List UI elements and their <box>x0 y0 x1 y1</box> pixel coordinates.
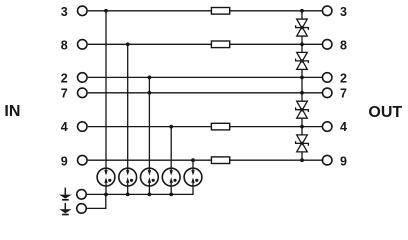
wire tube F4 bottom to ground bus <box>170 186 172 194</box>
junction bus/F2 <box>126 193 130 197</box>
svg-text:8: 8 <box>61 38 68 52</box>
junction bus/F4 <box>169 193 173 197</box>
svg-text:IN: IN <box>4 103 20 120</box>
wire line3 right (R1 to OUT 3) <box>230 10 323 12</box>
terminal circle OUT 4 <box>322 122 332 132</box>
terminal circle IN 7 <box>78 88 88 98</box>
wire line4 right (R3 to OUT 4) <box>230 126 323 128</box>
wire vertical line8 to gas tube F2 <box>127 44 129 168</box>
wire line8 left (IN 8 to resistor R2) <box>88 43 211 45</box>
svg-text:9: 9 <box>61 154 68 168</box>
wire diode chain line3 to D1 <box>301 11 303 19</box>
wire ground 2 to bus junction <box>87 194 106 208</box>
ground symbol arrow 2 <box>59 203 71 215</box>
wire D2 to line2 <box>301 69 303 77</box>
junction line4/diode chain <box>300 125 304 129</box>
wire vertical line4 to gas tube F4 <box>170 127 172 169</box>
wire diode chain line7 to D3 <box>301 93 303 101</box>
ground bus wire <box>87 186 193 194</box>
svg-text:7: 7 <box>61 86 68 100</box>
suppressor diode D1 (3-8) <box>296 19 309 36</box>
wire vertical line3 to gas tube F1 <box>105 11 107 169</box>
suppressor diode D3 (7-4) <box>296 101 309 118</box>
junction line2/diode chain <box>300 76 304 80</box>
wire D4 to line9 <box>301 152 303 160</box>
junction line3/diode chain <box>300 9 304 13</box>
svg-text:3: 3 <box>340 5 347 19</box>
wire vertical line9 to gas tube F5 <box>192 160 194 168</box>
terminal circle OUT 9 <box>322 155 332 165</box>
junction line9/diode chain <box>300 158 304 162</box>
wire diode chain line2 to line7 <box>301 77 303 92</box>
terminal circle IN 3 <box>78 6 88 16</box>
junction bus/F3 <box>148 193 152 197</box>
suppressor diode D2 (8-2) <box>296 52 309 69</box>
terminal circle OUT 2 <box>322 73 332 83</box>
svg-text:2: 2 <box>61 72 68 86</box>
wire line7 (IN 7 to OUT 7) <box>88 92 323 94</box>
terminal circle IN 2 <box>78 73 88 83</box>
gas discharge tube F1 <box>97 168 115 186</box>
junction line7/diode chain <box>300 91 304 95</box>
junction line9/F5 <box>191 158 195 162</box>
junction bus/F1/ground <box>104 193 108 197</box>
wire line4 left (IN 4 to resistor R3) <box>88 126 211 128</box>
suppressor diode D4 (4-9) <box>296 135 309 152</box>
wire diode chain line4 to D4 <box>301 127 303 135</box>
ground symbol arrow 1 <box>59 188 71 200</box>
wire tube F3 bottom to ground bus <box>148 186 150 194</box>
resistor R3 (line 4) <box>211 123 229 130</box>
junction line4/F4 <box>169 125 173 129</box>
svg-text:OUT: OUT <box>368 104 402 121</box>
wire line9 left (IN 9 to resistor R4) <box>88 159 211 161</box>
terminal circle IN 4 <box>78 122 88 132</box>
resistor R2 (line 8) <box>211 41 229 48</box>
svg-text:4: 4 <box>340 120 347 134</box>
wire diode chain line8 to D2 <box>301 44 303 52</box>
svg-text:4: 4 <box>61 120 68 134</box>
svg-text:9: 9 <box>340 154 347 168</box>
terminal circle IN 9 <box>78 155 88 165</box>
gas discharge tube F3 <box>141 168 159 186</box>
terminal circle OUT 7 <box>322 88 332 98</box>
junction line8/diode chain <box>300 42 304 46</box>
svg-text:2: 2 <box>340 72 347 86</box>
junction line2/F3 <box>148 76 152 80</box>
gas discharge tube F2 <box>119 168 137 186</box>
ground terminal circle 2 <box>77 204 87 214</box>
wire line3 left (IN 3 to resistor R1) <box>88 10 211 12</box>
wire D3 to line4 <box>301 118 303 126</box>
wire tube F1 bottom to ground bus <box>105 186 107 194</box>
junction line7/F3 <box>148 91 152 95</box>
svg-text:8: 8 <box>340 38 347 52</box>
gas discharge tube F5 <box>184 168 202 186</box>
wire D1 to line8 <box>301 36 303 44</box>
wire line9 right (R4 to OUT 9) <box>230 159 323 161</box>
svg-text:7: 7 <box>340 86 347 100</box>
wire vertical line2 to gas tube F3 <box>148 77 150 168</box>
terminal circle IN 8 <box>78 40 88 50</box>
wire tube F2 bottom to ground bus <box>127 186 129 194</box>
gas discharge tube F4 <box>162 168 180 186</box>
terminal circle OUT 3 <box>322 6 332 16</box>
junction line8/F2 <box>126 42 130 46</box>
wire line8 right (R2 to OUT 8) <box>230 43 323 45</box>
terminal circle OUT 8 <box>322 40 332 50</box>
resistor R1 (line 3) <box>211 8 229 15</box>
ground terminal circle 1 <box>77 190 87 200</box>
svg-text:3: 3 <box>61 5 68 19</box>
junction line3/F1 <box>104 9 108 13</box>
resistor R4 (line 9) <box>211 157 229 164</box>
wire line2 (IN 2 to OUT 2) <box>88 76 323 78</box>
